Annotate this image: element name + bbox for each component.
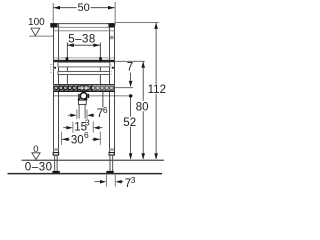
datum 0 triangle (32, 153, 40, 160)
dim 112 line (155, 23, 157, 84)
right rail (109, 24, 111, 155)
dim 112 ext line top (116, 21, 159, 23)
dim 50 line (53, 7, 76, 9)
finished floor line (22, 159, 164, 161)
thin back line (54, 57, 115, 59)
drain box corner right (84, 98, 87, 100)
dim 7-6 ext ticks (76, 110, 78, 119)
svg-text:5–38: 5–38 (68, 33, 96, 45)
threaded rod left (66, 43, 68, 85)
dim 15-3 left arrow (63, 127, 66, 129)
wall bracket dashed right (110, 65, 112, 77)
svg-text:52: 52 (123, 117, 136, 129)
dim 50 ext left (52, 3, 54, 24)
svg-text:112: 112 (148, 84, 166, 96)
slotted rail top edge (54, 84, 115, 86)
rail bottom cap right (109, 153, 114, 156)
dim 7-6 right arrow (93, 114, 94, 116)
dim 30-6 ext ticks (61, 132, 63, 145)
drain box corner left (78, 98, 81, 100)
traverse box (58, 62, 110, 67)
top crossbar bottom line (54, 30, 115, 32)
dim 112 arrow down (154, 153, 158, 159)
dim 7-6 left arrow (68, 114, 71, 116)
water supply pipe (102, 92, 104, 108)
dim 7 ext line top (114, 60, 144, 62)
slotted rail bottom edge (54, 90, 115, 92)
dim 5-38 arrow left (67, 43, 74, 47)
slot tick marks (59, 85, 116, 90)
svg-text:6: 6 (103, 105, 108, 115)
drain box (79, 100, 87, 104)
dim 7-3 left arrow (95, 181, 101, 183)
svg-text:3: 3 (85, 118, 90, 128)
datum 100 line (29, 35, 53, 37)
rail center dark block (80, 85, 88, 91)
raw floor line (8, 173, 163, 175)
drain neck (82, 91, 86, 94)
dim 80 arrow down (141, 153, 145, 159)
top crossbar right cap (108, 23, 114, 27)
top crossbar top edge (50, 23, 114, 25)
right rail clamp (110, 36, 114, 39)
right foot plate (106, 171, 113, 173)
svg-text:0–30: 0–30 (25, 161, 53, 173)
dim 50 arrow right (108, 6, 115, 10)
rod bolt left (66, 57, 69, 62)
svg-text:80: 80 (136, 101, 149, 113)
dim 50 ext right (114, 2, 116, 26)
dim 30-6 arrow right (94, 138, 101, 142)
drain center ext line (54, 95, 80, 97)
left foot plate (52, 171, 59, 173)
dim 52 line (130, 98, 132, 117)
drain wing right (88, 94, 90, 98)
band right lighten (93, 85, 114, 91)
slotted mounting rail band (54, 85, 115, 91)
drain socket circle (80, 93, 87, 100)
dim 15-3 ext ticks (72, 122, 74, 133)
dim 15-3 right arrow (100, 127, 103, 129)
svg-text:50: 50 (77, 2, 89, 14)
drain wing left (78, 94, 79, 98)
dim 52 arrow (129, 153, 133, 159)
drain pipe left line (78, 104, 80, 118)
dim 112 arrow up (154, 23, 158, 29)
rod bolt right (99, 57, 102, 62)
dim 30-6 arrow left (62, 138, 69, 142)
dim 80 line (142, 62, 144, 102)
wall bracket dashed left (51, 65, 54, 73)
leg clamp right (109, 148, 114, 150)
dim 7 arrow (130, 73, 132, 81)
dim 5-38 line (67, 44, 100, 46)
slot hole rivets (56, 87, 112, 88)
leg clamp left (53, 148, 58, 150)
svg-text:3: 3 (131, 175, 136, 185)
left foot tube (55, 155, 57, 171)
drain pipe right line (84, 104, 86, 118)
bracket screw left (54, 67, 56, 69)
svg-text:30: 30 (71, 135, 84, 147)
svg-text:100: 100 (28, 17, 45, 28)
dim 80 arrow up (141, 61, 145, 67)
dim 30-6 line (62, 138, 70, 140)
svg-text:7: 7 (127, 61, 133, 73)
dim 52 dot (129, 94, 132, 97)
dim 50 arrow left (53, 6, 60, 10)
dim 7-3 right arrow (121, 181, 123, 183)
rail bottom cap left (53, 153, 58, 156)
threaded rod right (99, 43, 101, 85)
left rail (53, 24, 55, 155)
traverse dark bar (54, 60, 115, 62)
datum 100 triangle (31, 28, 40, 36)
dim 5-38 arrow right (93, 43, 100, 47)
svg-text:6: 6 (84, 130, 89, 140)
top crossbar mid line (58, 26, 109, 28)
top crossbar left cap (50, 23, 57, 27)
rail bottom ext line (114, 87, 133, 89)
bracket screw right (112, 67, 114, 69)
right foot tube (110, 155, 113, 171)
dim 7-3 ext ticks (106, 175, 108, 187)
lower bar (58, 71, 110, 74)
slot hole rings (54, 86, 113, 90)
